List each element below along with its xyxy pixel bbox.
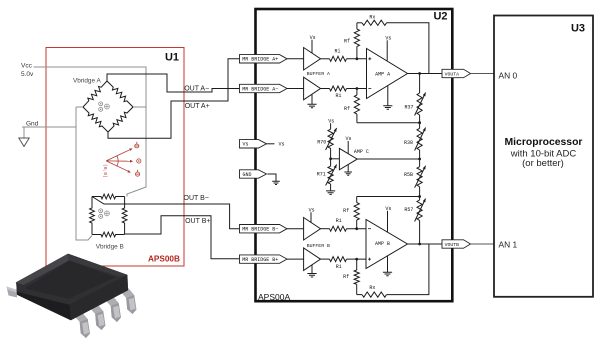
op-amp BUFFER A bbox=[304, 48, 321, 71]
wire AMP A output to VOUTA tag bbox=[408, 73, 443, 75]
output tag VOUTA bbox=[442, 69, 471, 77]
wire AMP B output to VOUTB tag bbox=[408, 243, 443, 245]
ground at AMP B bbox=[387, 256, 389, 272]
resistor Rx (channel B) feedback bbox=[357, 294, 362, 296]
svg-text:Rx: Rx bbox=[369, 285, 375, 291]
wire node to AMP C input bbox=[331, 158, 340, 160]
wire tag A- to buffer A2 bbox=[287, 88, 304, 90]
svg-text:APS00A: APS00A bbox=[258, 292, 290, 302]
output tag VOUTB bbox=[442, 240, 471, 248]
svg-text:MR BRIDGE A−: MR BRIDGE A− bbox=[242, 86, 278, 92]
svg-text:VOUTB: VOUTB bbox=[445, 242, 460, 248]
ground below R71 bbox=[326, 191, 335, 195]
power tag GND bbox=[240, 170, 267, 178]
node AMP A output / R37 bbox=[418, 72, 421, 75]
potentiometer R57 bbox=[417, 200, 422, 220]
potentiometer R5B bbox=[419, 159, 421, 167]
resistor bridge A top-right bbox=[107, 81, 133, 107]
svg-text:OUT B−: OUT B− bbox=[184, 195, 209, 202]
svg-text:GND: GND bbox=[243, 172, 252, 178]
wire VOUTA to AN 0 bbox=[471, 73, 495, 75]
resistor bridge A bottom-right bbox=[108, 107, 133, 132]
svg-text:U3: U3 bbox=[571, 23, 585, 35]
svg-text:AMP B: AMP B bbox=[375, 241, 390, 247]
wire buffer A out through Ri to amp A + input bbox=[321, 58, 330, 60]
wire OUT B- from bridge B top-left to MR BRIDGE B- tag bbox=[92, 197, 240, 229]
op-amp buffer B2 bbox=[304, 248, 321, 271]
bridge B field-direction symbols bbox=[99, 209, 110, 219]
svg-text:AN 0: AN 0 bbox=[499, 70, 518, 80]
svg-text:Ri: Ri bbox=[336, 264, 342, 270]
svg-text:R70: R70 bbox=[317, 140, 326, 146]
svg-text:OUT B+: OUT B+ bbox=[185, 218, 210, 225]
node AMP B output / R57 bbox=[418, 243, 421, 246]
wire Vcc to bridge A right node and down to bridge B bbox=[34, 67, 147, 197]
svg-text:Vs: Vs bbox=[309, 207, 315, 213]
ground at buffer B2 bbox=[311, 265, 313, 274]
resistor bridge B bottom bbox=[92, 232, 125, 237]
svg-text:APS00B: APS00B bbox=[148, 255, 180, 264]
svg-text:Gnd: Gnd bbox=[26, 121, 39, 128]
svg-text:BUFFER A: BUFFER A bbox=[307, 71, 330, 77]
input tag MR BRIDGE A+ bbox=[240, 55, 288, 63]
svg-text:R5B: R5B bbox=[404, 172, 413, 178]
wire buffer B2 out through Ri to amp B + input bbox=[321, 258, 330, 260]
node R37 / rail junction bbox=[418, 121, 421, 124]
svg-text:Rf: Rf bbox=[344, 39, 350, 45]
svg-text:Vbridge A: Vbridge A bbox=[73, 78, 101, 85]
resistor Rf (channel B top) bbox=[356, 220, 358, 229]
resistor bridge B top bbox=[92, 194, 125, 199]
svg-text:5.0v: 5.0v bbox=[21, 71, 34, 78]
wire Gnd rail to bridge A left node and bridge B bbox=[22, 126, 76, 128]
wire OUT A- from bridge A top node to MR BRIDGE A- tag bbox=[107, 74, 240, 92]
input tag MR BRIDGE B+ bbox=[240, 255, 288, 263]
node buffer A / Rf junction bbox=[356, 57, 359, 60]
wire channel B upper rail bbox=[357, 196, 420, 198]
input tag MR BRIDGE B- bbox=[240, 225, 288, 233]
wire OUT B+ from bridge B bottom-right to MR BRIDGE B+ tag bbox=[125, 216, 240, 259]
svg-text:BUFFER B: BUFFER B bbox=[307, 243, 330, 249]
node AMP C output / R38 / R5B junction bbox=[418, 158, 421, 161]
svg-text:Ri: Ri bbox=[335, 49, 341, 55]
resistor Rx (channel A) feedback bbox=[357, 22, 362, 24]
svg-text:U2: U2 bbox=[433, 11, 447, 23]
svg-text:Vs: Vs bbox=[243, 142, 249, 148]
ground at AMP C bbox=[347, 165, 349, 172]
photo of APS00B SOIC-8 package bbox=[7, 254, 137, 338]
node buffer B2 / Rf junction bbox=[355, 258, 358, 261]
conditioning block U2 outline (APS00A) bbox=[256, 9, 453, 301]
wire channel A lower feedback rail bbox=[357, 122, 420, 124]
wire GND tag hook bbox=[268, 174, 277, 181]
pin + of AMP B bbox=[368, 258, 371, 261]
svg-text:MR BRIDGE A+: MR BRIDGE A+ bbox=[242, 57, 278, 63]
svg-text:Rx: Rx bbox=[369, 14, 375, 20]
svg-text:Rf: Rf bbox=[343, 274, 349, 280]
node buffer B / Rf junction bbox=[355, 227, 358, 230]
wire Vs tag stub bbox=[267, 143, 275, 145]
ground at AMP A bbox=[387, 86, 389, 106]
ground symbol at GND tag bbox=[272, 181, 280, 184]
svg-text:Rf: Rf bbox=[344, 106, 350, 112]
wire OUT A+ from bridge A bottom node to MR BRIDGE A+ tag bbox=[108, 59, 240, 139]
wire AMP C output to gain chain bbox=[357, 158, 419, 160]
op-amp AMP B bbox=[366, 220, 408, 269]
svg-text:R71: R71 bbox=[317, 172, 326, 178]
bridge A field-direction symbols bbox=[99, 102, 110, 112]
node R70/R71 junction bbox=[329, 157, 332, 160]
input tag MR BRIDGE A- bbox=[240, 84, 288, 92]
svg-text:OUT A+: OUT A+ bbox=[185, 103, 210, 110]
wire tag B+ to buffer B2 bbox=[287, 258, 304, 260]
svg-text:(0,0): (0,0) bbox=[102, 164, 108, 178]
svg-text:Vs: Vs bbox=[279, 142, 285, 148]
wire buffer B out through Ri to amp B - input bbox=[321, 228, 330, 230]
svg-text:OUT A−: OUT A− bbox=[184, 86, 209, 93]
svg-text:Ri: Ri bbox=[336, 218, 342, 224]
svg-text:AMP A: AMP A bbox=[375, 72, 390, 78]
resistor Rf (channel A bottom) bbox=[356, 89, 358, 96]
ground symbol (open triangle) on Gnd bbox=[23, 127, 25, 138]
resistor Rf (channel B bottom) bbox=[356, 259, 358, 270]
potentiometer R71 bbox=[330, 159, 332, 166]
svg-text:AN 1: AN 1 bbox=[499, 240, 518, 250]
svg-text:Vs: Vs bbox=[310, 35, 316, 41]
ground at buffer A2 bbox=[311, 94, 313, 104]
svg-text:R37: R37 bbox=[405, 105, 414, 111]
svg-text:Microprocessor: Microprocessor bbox=[505, 137, 583, 148]
svg-text:U1: U1 bbox=[165, 52, 179, 64]
wire VOUTB to AN 1 bbox=[471, 243, 495, 245]
microprocessor block U3 outline bbox=[494, 16, 593, 297]
resistor Rf (channel A top) bbox=[356, 46, 358, 58]
resistor bridge A top-left bbox=[83, 81, 107, 107]
svg-text:Rf: Rf bbox=[343, 208, 349, 214]
pin - of AMP A bbox=[368, 88, 371, 90]
op-amp buffer A2 bbox=[304, 77, 321, 100]
svg-text:Vs: Vs bbox=[328, 118, 334, 124]
svg-text:VOUTA: VOUTA bbox=[445, 71, 460, 77]
potentiometer R37 bbox=[419, 74, 421, 94]
svg-text:Ri: Ri bbox=[336, 93, 342, 99]
svg-text:Vs: Vs bbox=[385, 206, 391, 212]
node R5B / R57 / rail junction bbox=[418, 195, 421, 198]
svg-text:AMP C: AMP C bbox=[354, 149, 369, 155]
svg-text:Vs: Vs bbox=[385, 35, 391, 41]
svg-text:Vbridge B: Vbridge B bbox=[96, 244, 124, 251]
svg-text:Vcc: Vcc bbox=[21, 63, 33, 70]
svg-text:R57: R57 bbox=[404, 207, 413, 213]
svg-text:(or better): (or better) bbox=[522, 158, 564, 169]
pin - of AMP B bbox=[368, 228, 371, 230]
svg-text:R38: R38 bbox=[404, 140, 413, 146]
svg-text:MR BRIDGE B+: MR BRIDGE B+ bbox=[242, 257, 278, 263]
pin + of AMP A bbox=[368, 57, 371, 60]
wire tag B- to buffer B bbox=[287, 228, 304, 230]
wire tag A+ to buffer A bbox=[287, 58, 304, 60]
sensor block U1 outline (APS00B) bbox=[46, 48, 184, 267]
node buffer A2 / Rf junction bbox=[356, 87, 359, 90]
op-amp AMP C bbox=[339, 148, 357, 169]
field direction fan (red arrows with angle arc) bbox=[106, 142, 141, 176]
resistor bridge B left bbox=[90, 197, 95, 235]
resistor bridge B right bbox=[122, 197, 127, 235]
op-amp AMP A bbox=[367, 49, 408, 99]
power tag Vs bbox=[240, 140, 267, 148]
wire buffer A2 out through Ri to amp A - input bbox=[321, 88, 330, 90]
svg-text:MR BRIDGE B−: MR BRIDGE B− bbox=[242, 227, 278, 233]
potentiometer R70 bbox=[328, 129, 333, 148]
op-amp BUFFER B bbox=[304, 218, 321, 241]
resistor bridge A bottom-left bbox=[83, 107, 108, 132]
potentiometer R38 bbox=[419, 123, 421, 129]
